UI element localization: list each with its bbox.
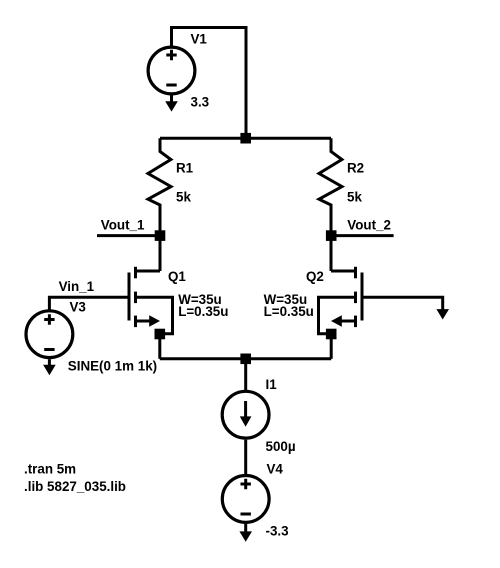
svg-text:500µ: 500µ — [266, 439, 296, 454]
svg-text:L=0.35u: L=0.35u — [178, 304, 228, 319]
voltage source V1 — [148, 47, 195, 94]
ground arrow below V3 — [43, 359, 56, 375]
svg-text:V1: V1 — [191, 32, 208, 47]
wire I1 to V4 — [244, 440, 247, 475]
svg-text:.tran 5m: .tran 5m — [24, 462, 76, 477]
svg-text:Vout_2: Vout_2 — [347, 218, 391, 233]
transistor Q1 — [129, 267, 173, 334]
wire Q2 gate to ground — [362, 297, 443, 309]
svg-text:Q2: Q2 — [306, 269, 324, 284]
node junction bottom rail — [240, 354, 251, 365]
svg-text:L=0.35u: L=0.35u — [264, 304, 314, 319]
transistor Q2 — [319, 267, 363, 334]
ground arrow Q2 gate — [436, 309, 449, 319]
resistor R2 — [319, 138, 342, 235]
svg-text:R1: R1 — [176, 160, 194, 175]
wire Q2 drain — [330, 236, 333, 271]
svg-text:-3.3: -3.3 — [266, 524, 289, 539]
svg-text:I1: I1 — [266, 377, 278, 392]
ground arrow below V1 — [165, 95, 178, 111]
wire Q2 source down — [330, 334, 333, 359]
svg-text:R2: R2 — [347, 160, 364, 175]
svg-text:5k: 5k — [176, 189, 191, 204]
voltage source V3 — [26, 311, 73, 358]
wire V1 plus terminal to top rail corner — [172, 28, 247, 47]
svg-text:Q1: Q1 — [168, 269, 186, 284]
wire Q1 drain — [159, 236, 162, 271]
node junction top rail — [240, 133, 251, 144]
wire rail to I1 — [244, 359, 247, 390]
ground arrow below V4 — [239, 524, 252, 542]
node junction Q2 source — [326, 329, 337, 340]
wire Q1 source down — [158, 334, 161, 359]
wire bottom rail — [160, 357, 331, 360]
svg-text:3.3: 3.3 — [191, 95, 210, 110]
resistor R1 — [148, 138, 171, 235]
wire Vin_1 gate — [49, 297, 129, 309]
svg-text:V4: V4 — [267, 462, 284, 477]
voltage source V4 — [222, 476, 269, 523]
svg-text:SINE(0 1m 1k): SINE(0 1m 1k) — [68, 359, 157, 374]
wire Vout_2 stub — [331, 234, 394, 237]
svg-text:.lib 5827_035.lib: .lib 5827_035.lib — [24, 479, 126, 494]
svg-text:Vin_1: Vin_1 — [59, 279, 95, 294]
wire Vout_1 stub — [97, 234, 160, 237]
node junction Q1 source — [155, 329, 166, 340]
svg-text:V3: V3 — [70, 300, 86, 315]
svg-text:5k: 5k — [347, 189, 362, 204]
node junction Vout_2 — [326, 230, 337, 241]
wire top rail — [160, 137, 331, 140]
current source I1 — [222, 391, 269, 438]
node junction Vout_1 — [155, 230, 166, 241]
wire top vertical into rail junction — [245, 26, 248, 138]
svg-text:Vout_1: Vout_1 — [101, 218, 145, 233]
